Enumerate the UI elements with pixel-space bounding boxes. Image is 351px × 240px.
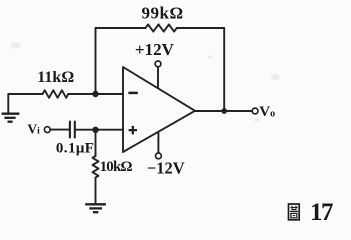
wire: op-amp output to Vo terminal [195, 110, 252, 112]
node A (inverting input junction) [92, 91, 98, 97]
caption figure character (CJK tu drawn as glyph) [289, 204, 300, 220]
ground symbol left [2, 114, 20, 122]
wire: capacitor to non-inverting input [76, 129, 123, 131]
svg-text:−12V: −12V [147, 159, 185, 178]
terminal Vi open circle [44, 127, 50, 133]
svg-text:+12V: +12V [135, 40, 175, 59]
terminal -12V open circle [156, 153, 162, 159]
node C (output junction) [221, 108, 227, 114]
svg-text:17: 17 [310, 199, 333, 226]
+12V supply wire [157, 67, 159, 88]
wire: left ground corner to 11k resistor [8, 93, 42, 95]
capacitor C1 plate right [74, 122, 76, 138]
faint scan smudges [11, 42, 280, 122]
op-amp U1 triangle [123, 67, 195, 152]
wire: 10k to bottom ground [95, 178, 97, 204]
ground symbol bottom [85, 204, 106, 212]
wire: 99k to top-right corner down to output node [177, 28, 225, 111]
terminal Vo open circle [252, 108, 258, 114]
svg-text:11kΩ: 11kΩ [37, 69, 74, 86]
wire: node A up and along top to 99k resistor [96, 28, 146, 94]
node B (non-inverting input junction) [92, 127, 98, 133]
-12V supply wire [157, 133, 159, 153]
resistor R1 11k ohm zigzag [43, 90, 69, 98]
ground stem left [7, 94, 9, 114]
resistor R3 10k ohm vertical zigzag [93, 156, 99, 178]
svg-text:10kΩ: 10kΩ [100, 159, 133, 175]
capacitor C1 plate left [69, 122, 71, 138]
wire: node B down to 10k resistor [95, 130, 97, 156]
resistor R2 99k ohm zigzag [146, 24, 177, 31]
wire: 11k to inverting input of op-amp [68, 93, 123, 95]
op-amp minus input symbol [128, 92, 137, 95]
svg-text:0.1μF: 0.1μF [56, 140, 94, 156]
op-amp plus input symbol [129, 126, 137, 134]
terminal +12V open circle [155, 61, 161, 67]
wire: Vi terminal to capacitor [50, 129, 69, 131]
svg-text:99kΩ: 99kΩ [142, 3, 184, 22]
